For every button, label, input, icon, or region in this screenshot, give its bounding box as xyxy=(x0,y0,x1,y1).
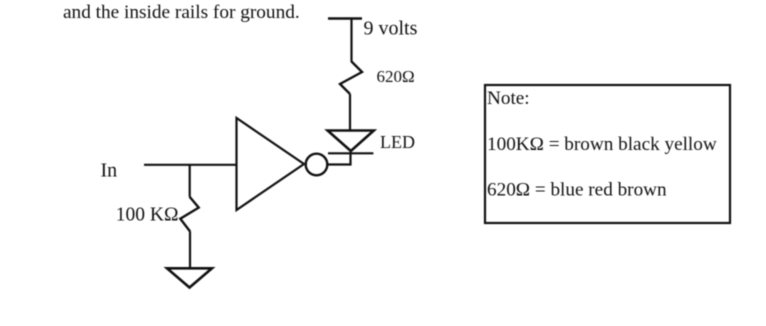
wire to ground xyxy=(189,232,191,268)
svg-text:100 KΩ: 100 KΩ xyxy=(116,204,179,225)
svg-text:9 volts: 9 volts xyxy=(364,18,418,40)
ground xyxy=(167,268,212,287)
wire LED to inverter bubble xyxy=(328,152,351,165)
svg-text:LED: LED xyxy=(380,132,415,152)
svg-text:and the inside rails for groun: and the inside rails for ground. xyxy=(63,2,300,23)
wire junction drop xyxy=(189,165,191,197)
9 volts supply bar xyxy=(328,17,362,20)
LED D1 xyxy=(328,131,374,152)
svg-text:620Ω: 620Ω xyxy=(377,67,415,86)
resistor R2 100 Kohm xyxy=(180,197,198,232)
inverter U1 (NOT gate) xyxy=(237,118,305,210)
svg-text:100KΩ = brown black yellow: 100KΩ = brown black yellow xyxy=(487,134,717,155)
svg-text:Note:: Note: xyxy=(487,88,530,109)
wire xyxy=(350,19,352,62)
inverter output bubble xyxy=(306,154,328,176)
resistor R1 620 ohm xyxy=(340,61,362,94)
note box xyxy=(485,85,730,223)
wire xyxy=(349,94,351,131)
wire input xyxy=(144,164,237,166)
svg-text:620Ω = blue red brown: 620Ω = blue red brown xyxy=(487,179,667,200)
LED cathode bar xyxy=(328,152,373,154)
svg-text:In: In xyxy=(101,159,118,181)
